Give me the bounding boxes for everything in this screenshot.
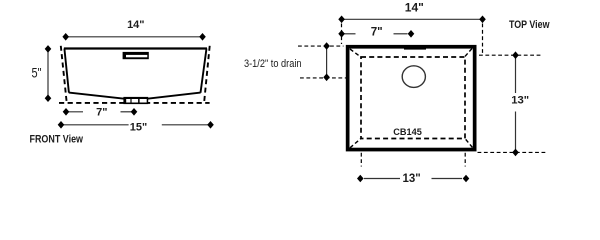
svg-text:3-1/2" to drain: 3-1/2" to drain <box>244 58 302 70</box>
sink body outline (front view) <box>64 49 207 99</box>
dimension 15 inch (front view) <box>58 121 214 134</box>
drain circle (top view) <box>402 66 425 88</box>
dimension 13 inch right (top view) <box>478 51 546 156</box>
svg-text:5": 5" <box>32 66 42 81</box>
svg-text:13": 13" <box>402 173 420 185</box>
basin bottom dashed rectangle (top view) <box>361 57 465 139</box>
corner slope dashed diagonals (top view) <box>350 49 473 148</box>
svg-text:7": 7" <box>96 107 107 119</box>
svg-text:FRONT View: FRONT View <box>30 134 84 146</box>
reference dashed lines for drain dimension <box>298 46 348 78</box>
hidden dashed outline (front view) <box>59 46 210 103</box>
svg-text:15": 15" <box>130 122 147 134</box>
dimension 7 inch (front view) <box>63 107 138 119</box>
overflow slot (top view) <box>404 47 426 50</box>
svg-text:CB145: CB145 <box>393 127 422 137</box>
svg-text:14": 14" <box>405 0 424 14</box>
svg-text:TOP View: TOP View <box>509 19 550 31</box>
drain fitting (front view) <box>123 97 148 104</box>
dimension 14 inch (top view) <box>338 0 486 23</box>
extension lines for 14 inch (top view) <box>342 24 483 54</box>
overflow slot (front view) <box>123 52 149 59</box>
dimension 3-1/2 inch to drain (top view) <box>244 42 330 81</box>
dimension 14 inch (front view) <box>62 19 205 41</box>
sink rim square (top view) <box>348 47 475 150</box>
svg-text:13": 13" <box>511 94 529 106</box>
dimension 5 inch (front view) <box>32 45 52 102</box>
dimension 13 inch bottom (top view) <box>357 173 469 185</box>
dimension 7 inch (top view) <box>338 25 414 38</box>
svg-text:7": 7" <box>371 25 383 38</box>
extension lines for bottom 13 inch (top view) <box>361 153 465 167</box>
svg-text:14": 14" <box>127 19 144 31</box>
